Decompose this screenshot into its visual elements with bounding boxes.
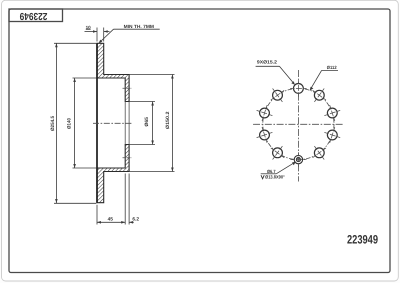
- hole at 144 deg: [314, 148, 324, 158]
- dimension: 10 (disc thickness): [85, 28, 110, 42]
- leader: MIN TH. 7MM: [100, 29, 160, 42]
- svg-text:45: 45: [108, 216, 114, 222]
- main center lines: [297, 70, 299, 182]
- svg-text:Ø140: Ø140: [67, 118, 73, 129]
- dimension: Ø254.5: [54, 43, 96, 203]
- bolt hole center marks in section: [123, 87, 132, 89]
- hole at 252 deg: [260, 130, 270, 140]
- svg-text:9XØ15.2: 9XØ15.2: [257, 60, 277, 65]
- lower half section: [97, 145, 129, 203]
- upper half section: disc ring + hat plate + mounting wall: [97, 43, 129, 101]
- svg-text:223949: 223949: [19, 10, 47, 21]
- hole at 108 deg: [327, 130, 337, 140]
- bolt holes 9x Ø15.2 (white fill): [260, 84, 338, 158]
- svg-text:MIN TH. 7MM: MIN TH. 7MM: [124, 24, 155, 29]
- bolt circle Ø112: [263, 88, 334, 159]
- dimension: Ø150.2: [129, 75, 174, 172]
- label Ø6.7 / countersink: [261, 162, 295, 174]
- hole at 216 deg: [273, 148, 283, 158]
- hole at 288 deg: [260, 108, 270, 118]
- hole at 36 deg: [314, 90, 324, 100]
- svg-text:Ø65: Ø65: [144, 117, 150, 127]
- axis center line: [93, 122, 133, 124]
- countersink V symbol: [261, 175, 264, 179]
- svg-text:10: 10: [86, 25, 92, 30]
- dimension: Ø65: [129, 102, 155, 145]
- small hole Ø6.7 countersunk: [294, 155, 302, 163]
- svg-text:Ø254.5: Ø254.5: [50, 116, 56, 131]
- svg-text:6.2: 6.2: [132, 216, 139, 222]
- hole at 0 deg: [294, 84, 304, 94]
- title box: [9, 9, 63, 22]
- hole at 324 deg: [273, 90, 283, 100]
- disc outboard face silhouette: [96, 43, 98, 202]
- label 9XØ15.2: [256, 66, 295, 84]
- hole center ticks: [257, 80, 341, 159]
- svg-text:Ø13.8X90°: Ø13.8X90°: [265, 175, 285, 180]
- label Ø112: [310, 70, 338, 89]
- hole at 72 deg: [327, 108, 337, 118]
- bore wall lines: [124, 102, 126, 145]
- svg-text:Ø6.7: Ø6.7: [267, 169, 276, 174]
- svg-text:Ø112: Ø112: [327, 65, 337, 70]
- dimension: Ø140: [73, 78, 97, 168]
- svg-text:Ø150.2: Ø150.2: [165, 111, 171, 129]
- svg-text:223949: 223949: [347, 232, 378, 246]
- dimension: 45 and 6.2: [97, 174, 134, 225]
